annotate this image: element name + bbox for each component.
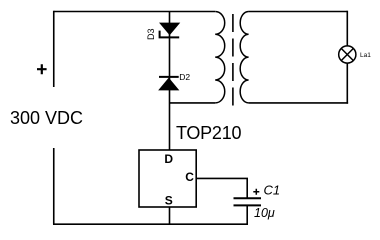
wire S pin to bottom rail — [169, 207, 171, 224]
transformer T1 core (dashed) — [232, 14, 234, 106]
svg-text:TOP210: TOP210 — [176, 123, 241, 143]
wire lamp bottom to bottom right rail — [346, 63, 348, 104]
transformer T1 primary winding — [215, 12, 225, 103]
svg-text:S: S — [165, 194, 173, 208]
wire diode branch vertical (top rail through D3/D2 down to TOP210 drain) — [169, 12, 171, 151]
wire capacitor bottom to bottom rail — [246, 205, 248, 225]
svg-text:D: D — [164, 152, 173, 166]
label + (C1 polarity) — [253, 189, 259, 195]
op-amp U1 TOP210 body — [139, 150, 196, 207]
wire C pin to capacitor — [196, 178, 247, 198]
diode D2 (cathode up) — [159, 77, 179, 90]
wire bottom right rail (secondary bottom to lamp return) — [249, 102, 349, 104]
svg-text:10μ: 10μ — [254, 206, 275, 220]
wire top rail right (secondary top to lamp) — [249, 11, 348, 13]
wire right vertical to lamp top — [346, 11, 348, 46]
wire left vertical + terminal — [53, 11, 55, 87]
diode D3 (cathode down, bent-bar) — [160, 23, 180, 37]
svg-text:C1: C1 — [264, 182, 281, 197]
label + (300 VDC positive terminal) — [37, 64, 47, 74]
svg-text:D3: D3 — [146, 28, 156, 40]
svg-text:La1: La1 — [360, 52, 371, 59]
svg-text:300 VDC: 300 VDC — [10, 108, 83, 128]
capacitor C1 plates — [234, 198, 262, 205]
svg-text:C: C — [185, 170, 194, 184]
lamp La1 — [339, 46, 356, 63]
svg-text:D2: D2 — [179, 72, 190, 82]
wire bottom rail — [53, 223, 248, 225]
wire lower left vertical — [53, 148, 55, 224]
wire top rail left (from + terminal corner to transformer primary) — [54, 11, 215, 13]
wire transformer primary bottom lead — [169, 102, 215, 104]
transformer T1 secondary winding — [240, 12, 248, 103]
